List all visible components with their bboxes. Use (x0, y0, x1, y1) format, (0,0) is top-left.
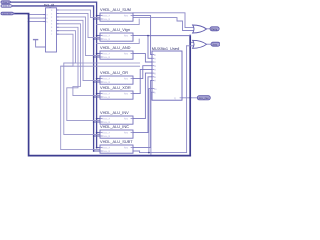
svg-text:Data_A: Data_A (102, 147, 110, 150)
svg-text:VHDL_ALU_Vign: VHDL_ALU_Vign (100, 27, 130, 32)
svg-text:VHDL_ALU_XOR: VHDL_ALU_XOR (100, 85, 131, 90)
svg-text:Data_A: Data_A (3, 1, 10, 4)
svg-text:ALU_Sel: ALU_Sel (3, 12, 11, 15)
svg-text:VHDL_ALU_INC: VHDL_ALU_INC (100, 124, 129, 129)
svg-text:Data_B: Data_B (102, 18, 110, 21)
svg-text:Data_B: Data_B (102, 81, 110, 84)
svg-text:Data_A: Data_A (102, 118, 110, 121)
svg-text:Data_A: Data_A (102, 53, 110, 56)
svg-text:MUX8to1_Used: MUX8to1_Used (152, 46, 179, 51)
svg-text:DO_tlf: DO_tlf (44, 4, 54, 8)
svg-text:Data_B: Data_B (102, 150, 110, 153)
svg-text:VHDL_ALU_AND: VHDL_ALU_AND (100, 45, 131, 50)
svg-text:VHDL_ALU_SUM: VHDL_ALU_SUM (100, 7, 131, 12)
svg-text:ALU_Out: ALU_Out (199, 97, 209, 100)
svg-text:Data_B: Data_B (102, 96, 110, 99)
svg-text:Data_B: Data_B (102, 135, 110, 138)
svg-text:Zero: Zero (212, 43, 218, 46)
svg-text:Data_A: Data_A (102, 35, 110, 38)
svg-text:Data_B: Data_B (3, 5, 10, 8)
svg-text:VHDL_ALU_SUBT: VHDL_ALU_SUBT (100, 139, 133, 144)
svg-text:Data_A: Data_A (102, 78, 110, 81)
svg-text:Data_A: Data_A (102, 93, 110, 96)
svg-text:VHDL_ALU_OR: VHDL_ALU_OR (100, 70, 128, 75)
svg-text:Carry: Carry (211, 28, 218, 31)
svg-text:Data_B: Data_B (102, 56, 110, 59)
svg-text:Data_B: Data_B (102, 38, 110, 41)
svg-text:Data_A: Data_A (102, 15, 110, 18)
svg-text:Data_A: Data_A (102, 132, 110, 135)
svg-text:Q: Q (174, 97, 176, 100)
svg-text:VHDL_ALU_INV: VHDL_ALU_INV (100, 110, 129, 115)
